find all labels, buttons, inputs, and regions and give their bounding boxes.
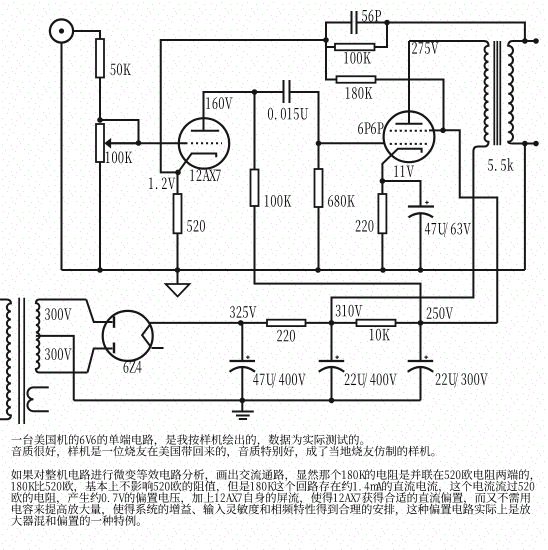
junction 520/bus	[175, 267, 181, 273]
wire 520 to ground bus	[177, 233, 179, 270]
label 5.5k	[488, 159, 493, 171]
wire grid node to 680K	[318, 143, 320, 169]
6Z4 heater stub	[152, 347, 164, 349]
junction secondary top / feedback	[522, 38, 528, 44]
wire cathode to 47U/63V	[382, 181, 420, 207]
node A (feedback junction)	[323, 37, 329, 43]
rectifier 6Z4 envelope	[103, 311, 153, 361]
label 6P6P	[358, 122, 363, 134]
resistor 10K (filter)	[357, 320, 396, 326]
power transformer filament winding	[27, 387, 48, 411]
6Z4 plate 1	[113, 316, 115, 328]
triode 12AX7 envelope	[179, 118, 229, 168]
label 310V	[336, 305, 341, 317]
6P6P control grid (dashed)	[390, 143, 429, 145]
resistor 100K (plate load)	[251, 170, 259, 207]
wire wiper to 12AX7 grid	[111, 142, 188, 144]
6P6P screen grid (dashed)	[390, 130, 429, 132]
12AX7 cathode	[178, 154, 216, 173]
junction 220/bus	[380, 267, 386, 273]
node 12AX7 plate	[252, 89, 258, 95]
label 12AX7	[190, 170, 194, 181]
wire plate node to 0.015U	[255, 91, 283, 93]
wire node B to secondary top	[387, 23, 525, 42]
wire 220 to ground bus	[381, 233, 383, 270]
6P6P plate	[396, 123, 423, 125]
ground bus	[62, 269, 525, 271]
feedback wire cathode to node A	[161, 40, 326, 172]
wire 12AX7 plate to node	[204, 91, 255, 93]
wire HV bottom to 6Z4 plate 2	[88, 349, 113, 373]
B+ rail 325V	[150, 322, 267, 324]
power transformer primary	[0, 300, 11, 420]
caption text	[11, 434, 534, 526]
6P6P cathode	[382, 149, 421, 181]
wire 56P to node B	[358, 22, 388, 24]
junction pot/bus	[97, 267, 103, 273]
output transformer secondary	[508, 41, 536, 144]
resistor 100K (feedback)	[335, 44, 375, 51]
ground symbol (bars)	[241, 400, 243, 411]
label 160V	[206, 97, 210, 108]
wire 180K right to screen node	[376, 80, 444, 131]
node grid/680K junction	[316, 141, 322, 147]
HV center tap to B- bus	[36, 336, 74, 401]
node 250V	[418, 320, 424, 326]
6Z4 cathode	[142, 324, 150, 346]
wire HV top to 6Z4 plate 1	[86, 300, 112, 323]
wire 10K to 250V rail	[396, 322, 498, 324]
label 6Z4	[124, 361, 129, 373]
junction secondary bottom / ground	[522, 141, 528, 147]
capacitor 47U/63V	[408, 205, 434, 207]
wire 220 to 310V node	[306, 322, 357, 324]
input jack J1	[50, 19, 73, 42]
power transformer HV secondary	[36, 300, 88, 373]
junction 47U63V/bus	[418, 267, 424, 273]
label 300V upper	[45, 308, 50, 320]
B- return bus	[74, 399, 421, 401]
junction wiper wire	[136, 140, 142, 146]
output transformer core	[493, 41, 495, 145]
wire screen to 250V node	[443, 130, 497, 323]
potentiometer 100K	[96, 124, 104, 162]
resistor 680K	[315, 169, 323, 207]
12AX7 grid (dashed)	[191, 142, 222, 144]
wire 680K to ground bus	[318, 207, 320, 270]
label 250V	[427, 307, 432, 319]
wire grid node to 6P6P grid	[319, 142, 384, 144]
node 6P6P cathode	[380, 178, 386, 184]
capacitor 47U/400V	[241, 323, 243, 361]
node B	[384, 20, 390, 26]
resistor 220 (filter)	[267, 320, 306, 326]
wire jack sleeve to ground bus	[61, 43, 63, 270]
capacitor 0.015U	[283, 80, 285, 103]
capacitor 22U/300V	[420, 323, 422, 361]
label 325V	[230, 306, 235, 318]
pentode 6P6P envelope	[384, 111, 435, 162]
output transformer primary	[332, 41, 489, 323]
resistor 50K	[96, 39, 104, 78]
wire secondary bottom to ground bus	[524, 144, 526, 271]
label 1.2V	[149, 178, 153, 189]
resistor 520	[174, 194, 182, 233]
junction 22U/400V bottom	[329, 398, 335, 404]
6Z4 plate 2	[113, 343, 115, 354]
node 310V	[329, 320, 335, 326]
wire tap to wiper	[101, 120, 139, 142]
wire 47U/63V to ground bus	[420, 214, 422, 270]
junction 47U/400V bottom	[240, 398, 246, 404]
node 12AX7 cathode	[175, 170, 181, 176]
wire 100K right to node B	[375, 23, 388, 47]
wire node A to 100K left	[326, 40, 335, 47]
output terminal bottom	[533, 141, 539, 147]
wire node A to 56P	[326, 23, 351, 41]
node junction 50K/pot/wiper tap	[97, 117, 103, 123]
junction 680K/bus	[315, 267, 321, 273]
wire node A to 180K left	[326, 41, 337, 80]
label 11V	[394, 166, 398, 177]
wire 100K to 250V node	[255, 206, 421, 323]
wire jack to 50K top	[73, 31, 100, 40]
wire 0.015U to grid node	[291, 92, 319, 143]
label 300V lower	[45, 348, 50, 360]
wire cathode to 220	[381, 181, 383, 194]
resistor 220 (cathode)	[378, 194, 386, 233]
ground symbol (triangle)	[177, 270, 179, 284]
capacitor 22U/400V	[331, 323, 333, 361]
label 275V	[412, 42, 417, 54]
node 325V	[238, 320, 244, 326]
wire cathode to 520	[177, 172, 179, 194]
capacitor 56P	[351, 11, 353, 34]
wire pot bottom to ground bus	[99, 162, 101, 270]
12AX7 plate	[191, 130, 219, 132]
power transformer core	[18, 298, 20, 424]
node 6P6P screen	[440, 128, 446, 134]
resistor 180K	[337, 76, 376, 83]
wire plate node down to 100K	[254, 92, 256, 170]
wire 50K bottom to pot top	[99, 78, 101, 122]
output terminal top	[533, 38, 539, 44]
